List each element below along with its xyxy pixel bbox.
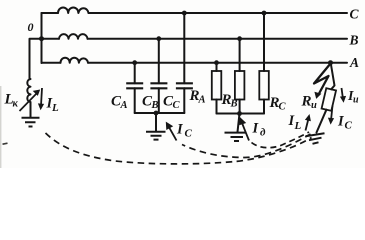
svg-text:д: д xyxy=(260,127,266,139)
capacitor CC plates xyxy=(176,83,193,88)
wire Ru to ground xyxy=(317,110,327,133)
resistor RC body xyxy=(259,71,269,100)
wire resistor RC drop xyxy=(263,13,265,71)
wire resistors to bus xyxy=(217,100,265,114)
wire capacitor CA drop xyxy=(134,63,136,84)
svg-text:B: B xyxy=(151,100,159,111)
svg-text:C: C xyxy=(279,102,287,113)
wire resistor RB drop xyxy=(239,39,241,71)
junction capacitor bus xyxy=(154,111,159,116)
junction resistor bus xyxy=(237,111,242,116)
svg-text:R: R xyxy=(301,94,312,110)
junction RB on phase B xyxy=(237,36,242,41)
junction CA on phase A xyxy=(132,60,137,65)
inductor winding phase B xyxy=(59,34,88,39)
arrow IC up (capacitors) xyxy=(168,126,177,141)
wire resistor bus to ground xyxy=(238,114,240,133)
dashed return path from Lk ground xyxy=(46,133,312,164)
junction CC on phase C xyxy=(182,11,187,16)
svg-text:A: A xyxy=(349,55,359,70)
dashed return path from capacitor ground xyxy=(182,134,311,158)
ground under resistors xyxy=(225,133,247,141)
svg-text:B: B xyxy=(230,99,238,110)
wire phase C horizontal xyxy=(42,12,348,14)
wire resistor RA drop xyxy=(216,63,218,71)
resistor Ru body (tilted) xyxy=(322,88,336,111)
junction fault point on phase A xyxy=(328,60,333,65)
svg-text:и: и xyxy=(353,95,359,106)
lightning fault arrow at phase A xyxy=(314,64,331,95)
inductor winding phase A xyxy=(61,58,89,63)
dashed return path from resistor ground xyxy=(252,132,310,148)
resistor RA body xyxy=(212,71,222,100)
variable arrow through Lk xyxy=(20,93,38,112)
wire Lk to ground xyxy=(30,102,32,117)
svg-text:A: A xyxy=(120,100,128,111)
svg-text:и: и xyxy=(311,100,317,111)
wire capacitor CB drop xyxy=(158,39,160,84)
wire capacitor common bus xyxy=(135,112,185,114)
wire branch from node 0 to arc-suppression coil xyxy=(30,39,42,79)
capacitor CB plates xyxy=(150,83,167,88)
svg-text:L: L xyxy=(51,102,59,114)
wire phase B horizontal xyxy=(42,38,348,40)
arrow IC down (right) xyxy=(331,106,333,121)
wire phase A horizontal xyxy=(42,62,348,64)
inductor winding phase C xyxy=(58,7,89,13)
ground under capacitors xyxy=(146,132,166,140)
svg-text:I: I xyxy=(176,122,184,138)
arc-suppression coil Lk (vertical winding) xyxy=(27,79,30,102)
wire fault branch to Ru xyxy=(331,64,335,90)
svg-text:C: C xyxy=(345,120,353,132)
arrow Iu down (right) xyxy=(342,88,344,99)
svg-text:к: к xyxy=(13,99,19,110)
svg-text:C: C xyxy=(185,128,193,140)
wire capacitors to bus xyxy=(135,88,185,113)
ground under Lk xyxy=(22,118,40,127)
svg-text:I: I xyxy=(252,121,260,137)
neutral bus (node 0 vertical wire) xyxy=(41,13,43,63)
arrow IL up (right ground) xyxy=(306,119,309,131)
svg-text:0: 0 xyxy=(28,20,34,34)
ground under Ru (slanted) xyxy=(306,133,325,144)
resistor RB body xyxy=(235,71,245,100)
arrow Id up (resistors) xyxy=(242,122,250,141)
capacitor CA plates xyxy=(126,83,143,88)
wire capacitor CC drop xyxy=(183,13,185,83)
arrow IL down (left) xyxy=(41,88,42,106)
svg-text:C: C xyxy=(350,7,360,22)
svg-text:C: C xyxy=(173,100,181,111)
svg-text:L: L xyxy=(294,120,302,132)
svg-text:A: A xyxy=(198,95,206,106)
junction RA on phase A xyxy=(214,60,219,65)
scan edge artifact xyxy=(0,86,2,168)
wire resistor common bus xyxy=(217,113,265,115)
wire capacitor bus to ground xyxy=(155,113,157,131)
junction node 0 xyxy=(39,36,44,41)
junction CB on phase B xyxy=(156,36,161,41)
junction RC on phase C xyxy=(262,11,267,16)
svg-text:B: B xyxy=(349,33,359,48)
